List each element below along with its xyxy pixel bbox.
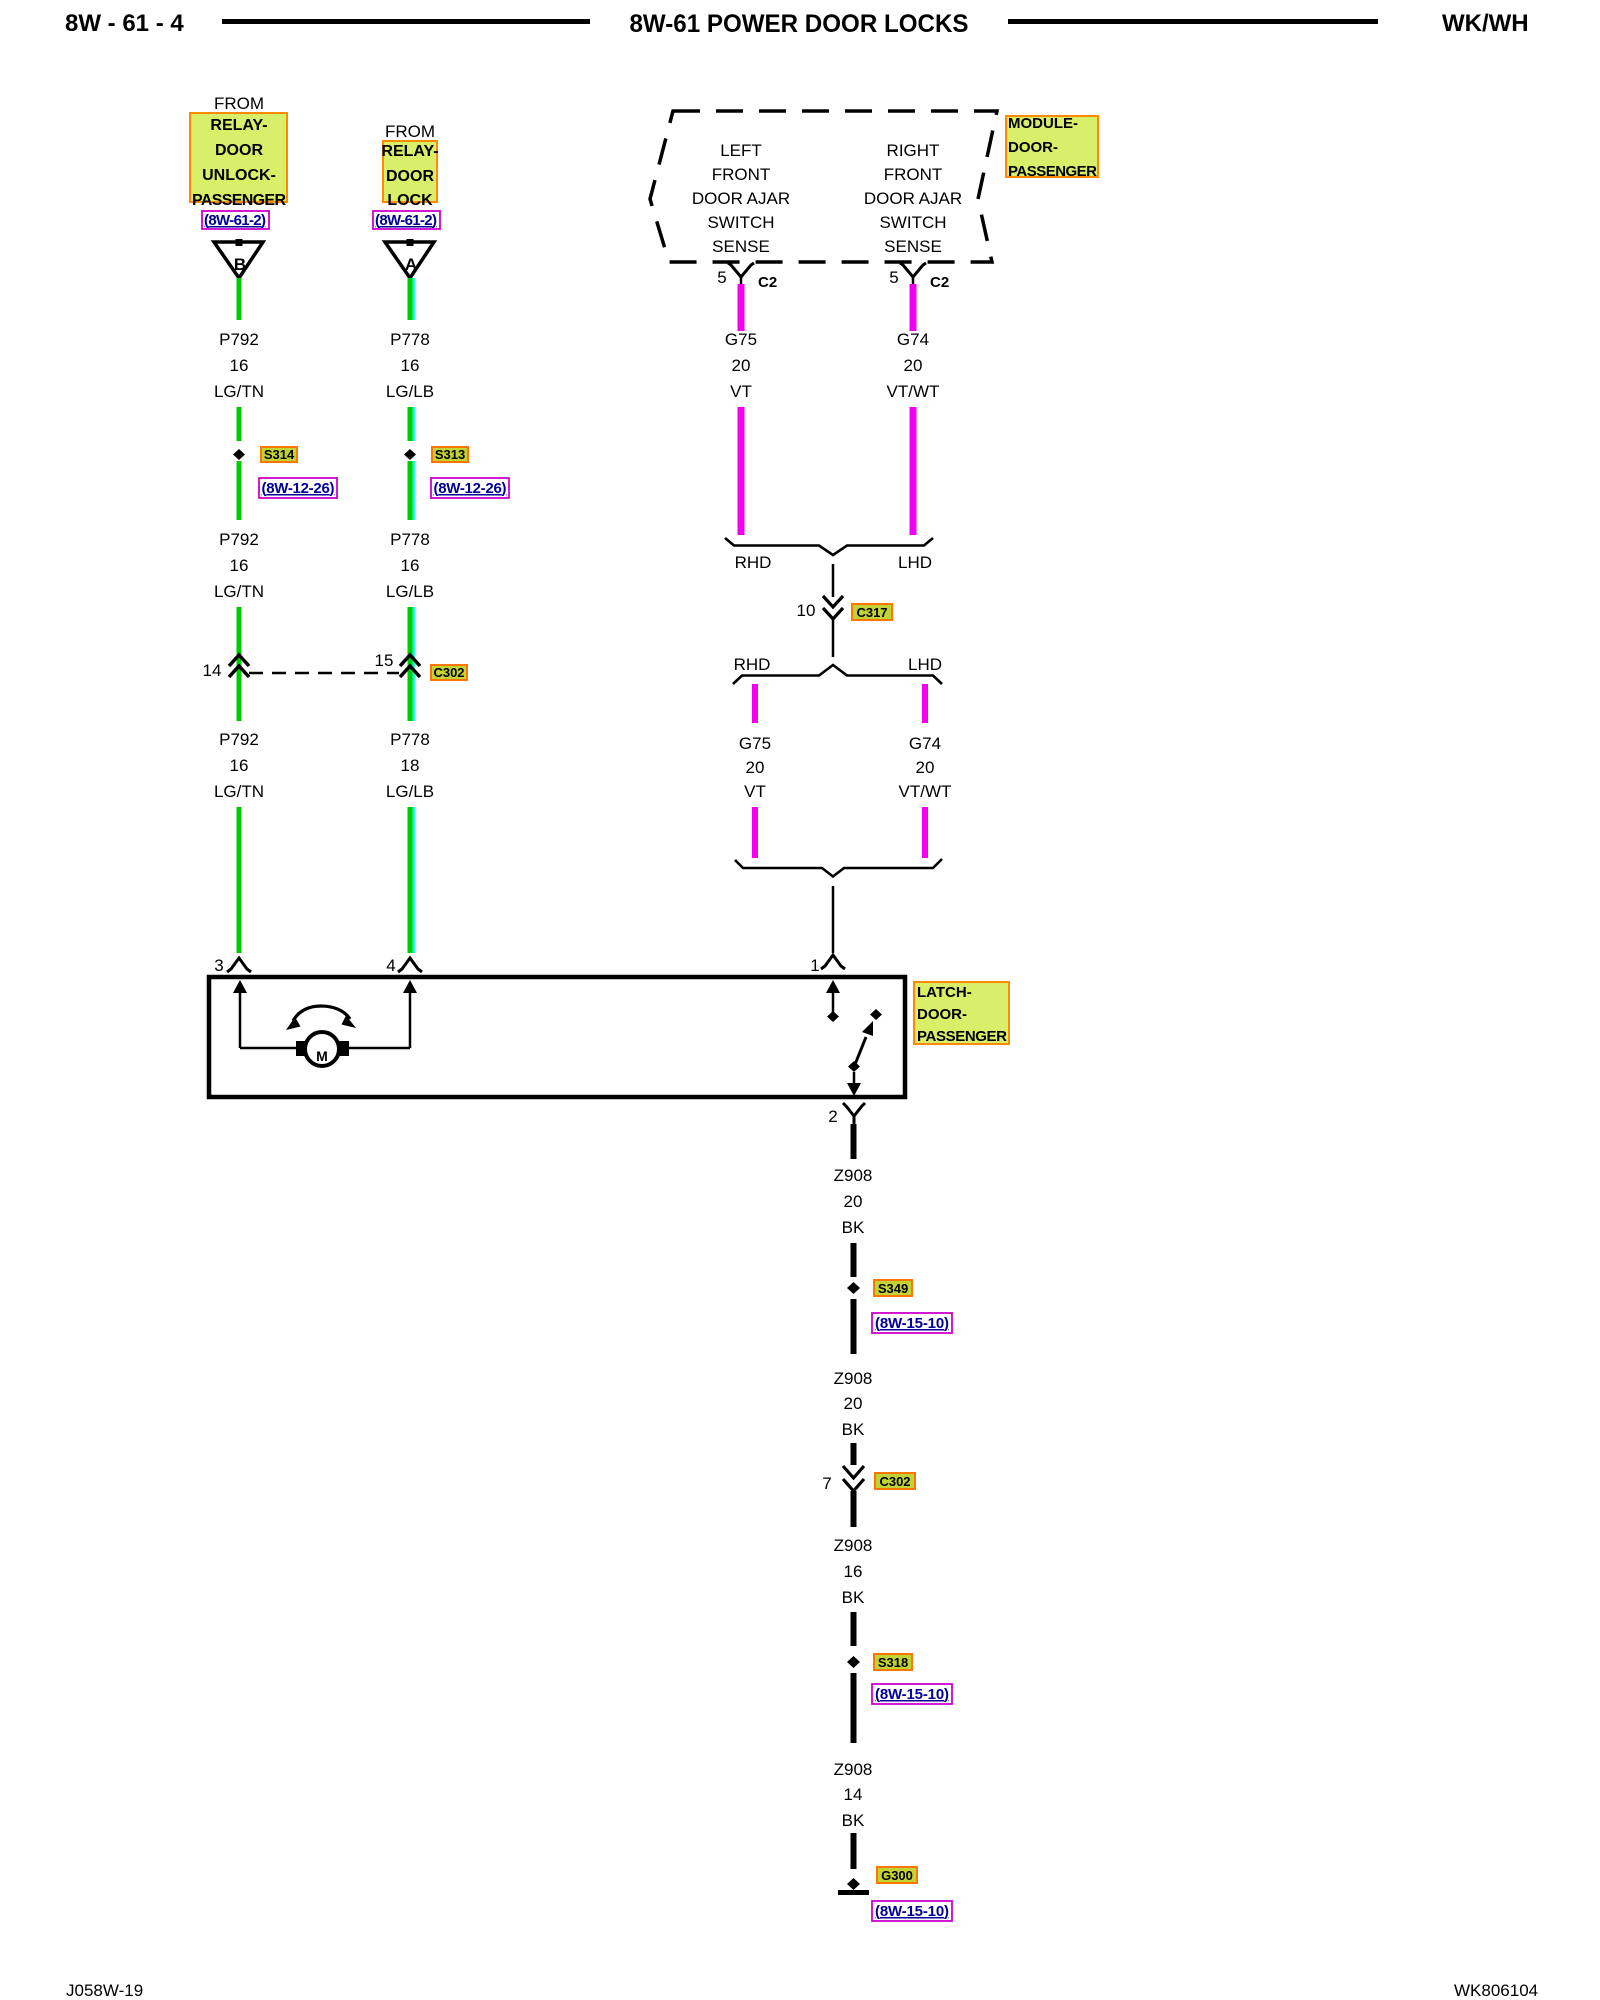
wire label G75 20 VT (upper) [725, 330, 757, 401]
svg-text:16: 16 [230, 356, 249, 375]
svg-text:DOOR: DOOR [386, 168, 434, 185]
svg-text:3: 3 [214, 956, 223, 975]
svg-text:15: 15 [375, 651, 394, 670]
svg-text:C2: C2 [758, 274, 777, 291]
svg-text:VT: VT [744, 782, 766, 801]
svg-text:SENSE: SENSE [712, 237, 770, 256]
brace upper (RHD/LHD merge) [725, 538, 933, 555]
svg-text:LHD: LHD [908, 655, 942, 674]
motor pin 4 arrow [403, 980, 417, 1048]
wire label Z908 14 BK [834, 1760, 873, 1830]
relay source box RELAY-DOOR LOCK [381, 141, 438, 209]
module label box MODULE-DOOR-PASSENGER [1006, 115, 1098, 180]
svg-text:(8W-15-10): (8W-15-10) [875, 1903, 949, 1920]
svg-text:LHD: LHD [898, 553, 932, 572]
off-page connector triangle A [385, 239, 434, 278]
wire Z908 black segment 5 [851, 1491, 857, 1527]
svg-text:10: 10 [797, 601, 816, 620]
svg-text:20: 20 [732, 356, 751, 375]
wire Z908 black segment 4 [851, 1443, 857, 1465]
svg-text:C302: C302 [433, 665, 464, 680]
svg-text:VT/WT: VT/WT [899, 782, 952, 801]
off-page connector triangle B [214, 239, 263, 278]
splice S314 diamond [233, 449, 245, 460]
wire P778 green segment 2 [408, 407, 413, 441]
svg-text:7: 7 [822, 1474, 831, 1493]
svg-text:(8W-15-10): (8W-15-10) [875, 1315, 949, 1332]
splice S318 label [874, 1654, 912, 1670]
svg-text:(8W-15-10): (8W-15-10) [875, 1686, 949, 1703]
svg-text:(8W-61-2): (8W-61-2) [375, 212, 437, 229]
switch common node diamond [827, 1011, 839, 1022]
switch blade with arrowhead [854, 1021, 873, 1067]
splice S313 diamond [404, 449, 416, 460]
header rule right [1008, 19, 1378, 24]
switch pin 1 arrow [826, 980, 840, 1016]
wire label Z908 20 BK (2) [834, 1369, 873, 1439]
wire P778 green segment 3 [408, 461, 413, 520]
svg-text:20: 20 [746, 758, 765, 777]
svg-text:20: 20 [844, 1394, 863, 1413]
svg-text:DOOR-: DOOR- [917, 1006, 967, 1023]
svg-text:LEFT: LEFT [720, 141, 762, 160]
svg-text:1: 1 [810, 956, 819, 975]
relay source box RELAY-DOOR UNLOCK-PASSENGER [190, 113, 287, 209]
svg-text:16: 16 [401, 556, 420, 575]
svg-text:(8W-12-26): (8W-12-26) [262, 480, 335, 497]
svg-text:PASSENGER: PASSENGER [192, 192, 286, 209]
wire P792 green segment 4 (through C302) [237, 607, 242, 721]
svg-text:RHD: RHD [734, 655, 771, 674]
module text RIGHT FRONT DOOR AJAR SWITCH SENSE [864, 141, 962, 256]
svg-text:14: 14 [844, 1785, 863, 1804]
svg-text:SWITCH: SWITCH [707, 213, 774, 232]
svg-text:LG/LB: LG/LB [386, 382, 434, 401]
svg-text:16: 16 [844, 1562, 863, 1581]
COLUMN 2 : FROM RELAY-DOOR LOCK [373, 122, 509, 975]
svg-text:DOOR: DOOR [215, 142, 263, 159]
wire P792 green segment 2 [237, 407, 242, 441]
COLUMN 1 : FROM RELAY-DOOR UNLOCK-PASSENGER [190, 94, 399, 975]
svg-text:4: 4 [386, 956, 395, 975]
wire G74 magenta segment 1 [910, 284, 917, 331]
svg-text:BK: BK [842, 1420, 865, 1439]
svg-text:S314: S314 [264, 447, 295, 462]
svg-text:MODULE-: MODULE- [1008, 115, 1078, 132]
wire P792 green segment 3 [237, 461, 242, 520]
svg-text:2: 2 [828, 1107, 837, 1126]
svg-text:C317: C317 [856, 605, 887, 620]
wire to C317 [832, 564, 835, 597]
svg-text:J058W-19: J058W-19 [66, 1981, 143, 2000]
svg-text:FROM: FROM [385, 122, 435, 141]
wire G75 magenta segment 2 [738, 407, 745, 535]
svg-text:S349: S349 [878, 1281, 908, 1296]
svg-text:20: 20 [844, 1192, 863, 1211]
wire label P792 16 LG/TN (upper) [214, 330, 264, 401]
svg-text:RHD: RHD [735, 553, 772, 572]
svg-text:Z908: Z908 [834, 1369, 873, 1388]
svg-text:VT: VT [730, 382, 752, 401]
svg-text:LG/TN: LG/TN [214, 782, 264, 801]
wire label G74 20 VT/WT (lower) [899, 734, 952, 801]
svg-text:G74: G74 [909, 734, 941, 753]
svg-text:P778: P778 [390, 730, 430, 749]
svg-text:8W-61 POWER DOOR LOCKS: 8W-61 POWER DOOR LOCKS [630, 10, 969, 38]
LATCH-DOOR-PASSENGER section [209, 955, 1009, 1126]
wire from C317 to split [832, 618, 835, 657]
svg-text:LOCK: LOCK [387, 192, 433, 209]
splice S349 diamond [847, 1282, 860, 1294]
wire label P792 16 LG/TN (lower) [214, 730, 264, 801]
svg-text:P778: P778 [390, 530, 430, 549]
wire label Z908 20 BK (1) [834, 1166, 873, 1237]
wire G74 magenta segment 2 [910, 407, 917, 535]
svg-text:P792: P792 [219, 530, 259, 549]
motor M circle [305, 1032, 339, 1066]
switch to pin 2 arrow [847, 1072, 861, 1096]
wire label Z908 16 BK [834, 1536, 873, 1607]
svg-text:BK: BK [842, 1811, 865, 1830]
svg-text:8W - 61 - 4: 8W - 61 - 4 [65, 10, 184, 37]
svg-text:VT/WT: VT/WT [887, 382, 940, 401]
svg-text:20: 20 [916, 758, 935, 777]
ground G300 symbol [838, 1878, 869, 1895]
svg-text:G74: G74 [897, 330, 929, 349]
reference link (8W-12-26) col2 [431, 478, 509, 498]
reference link (8W-12-26) col1 [259, 478, 337, 498]
wire label P778 16 LG/LB (upper) [386, 330, 434, 401]
svg-text:16: 16 [401, 356, 420, 375]
svg-text:C2: C2 [930, 274, 949, 291]
module text LEFT FRONT DOOR AJAR SWITCH SENSE [692, 141, 790, 256]
svg-text:PASSENGER: PASSENGER [917, 1028, 1007, 1045]
svg-text:WK/WH: WK/WH [1442, 10, 1529, 37]
wire label P778 16 LG/LB (middle) [386, 530, 434, 601]
motor left terminal [296, 1041, 306, 1056]
wire label G74 20 VT/WT (upper) [887, 330, 940, 401]
switch throw contact diamond [870, 1009, 882, 1020]
reference link (8W-61-2) col1 [202, 211, 269, 229]
latch pin 2 connector Y [843, 1103, 865, 1125]
svg-text:DOOR-: DOOR- [1008, 139, 1058, 156]
svg-text:LG/LB: LG/LB [386, 782, 434, 801]
module dashed outline [650, 111, 997, 262]
motor right terminal [339, 1041, 349, 1056]
switch lower node diamond [848, 1061, 860, 1072]
svg-text:P792: P792 [219, 730, 259, 749]
connector C302 pin 15 chevrons [400, 655, 420, 677]
motor wiring horizontal [240, 1047, 297, 1050]
reference link (8W-15-10) S318 [872, 1684, 952, 1704]
svg-text:G75: G75 [739, 734, 771, 753]
splice S313 label [432, 447, 468, 462]
svg-text:RIGHT: RIGHT [887, 141, 940, 160]
header rule left [222, 19, 590, 24]
Z908 ground path [822, 1124, 952, 1921]
reference link (8W-15-10) S349 [872, 1313, 952, 1333]
wire label P792 16 LG/TN (middle) [214, 530, 264, 601]
svg-text:PASSENGER: PASSENGER [1008, 163, 1097, 180]
wire G74 magenta stub lower [922, 807, 928, 858]
svg-text:5: 5 [889, 268, 898, 287]
svg-text:A: A [405, 255, 417, 274]
ground G300 label [877, 1867, 917, 1883]
brace split (inverted) [733, 665, 942, 684]
connector C2 pin 5 (right) [900, 263, 926, 285]
svg-text:5: 5 [717, 268, 726, 287]
svg-text:(8W-61-2): (8W-61-2) [204, 212, 266, 229]
wire Z908 black segment 6 [851, 1612, 857, 1646]
connector C317 chevrons [823, 596, 843, 619]
splice S318 diamond [847, 1656, 860, 1668]
connector C302 label (black wire) [875, 1473, 915, 1489]
svg-text:LATCH-: LATCH- [917, 984, 972, 1001]
wire P778 green segment 4 (through C302) [408, 607, 413, 721]
wire Z908 black segment 7 [851, 1673, 857, 1743]
svg-text:20: 20 [904, 356, 923, 375]
svg-text:16: 16 [230, 556, 249, 575]
wire G74 magenta stub upper [922, 684, 928, 723]
wire Z908 black segment 2 [851, 1243, 857, 1277]
svg-text:RELAY-: RELAY- [210, 117, 267, 134]
svg-text:P792: P792 [219, 330, 259, 349]
MODULE-DOOR-PASSENGER section [650, 111, 1098, 953]
latch pin 4 chevron [398, 958, 422, 972]
svg-text:18: 18 [401, 756, 420, 775]
svg-text:SWITCH: SWITCH [879, 213, 946, 232]
svg-text:DOOR AJAR: DOOR AJAR [692, 189, 790, 208]
svg-text:LG/LB: LG/LB [386, 582, 434, 601]
splice S349 label [874, 1280, 912, 1296]
motor rotation double arrow [286, 1006, 356, 1030]
svg-text:Z908: Z908 [834, 1166, 873, 1185]
svg-text:FRONT: FRONT [884, 165, 943, 184]
svg-text:16: 16 [230, 756, 249, 775]
connector C302 pin 14 chevrons [229, 655, 249, 677]
svg-text:14: 14 [203, 661, 222, 680]
svg-text:G300: G300 [881, 1868, 913, 1883]
svg-text:B: B [234, 255, 246, 274]
svg-text:WK806104: WK806104 [1454, 1981, 1538, 2000]
connector C317 label [852, 604, 892, 620]
reference link (8W-15-10) G300 [872, 1901, 952, 1921]
wire P778 green segment 1 [408, 278, 413, 320]
svg-text:S318: S318 [878, 1655, 908, 1670]
svg-text:G75: G75 [725, 330, 757, 349]
connector C302 dashed tie line [249, 672, 399, 675]
wire Z908 black segment 3 [851, 1299, 857, 1354]
svg-text:BK: BK [842, 1218, 865, 1237]
wire from merge to latch pin 1 [832, 886, 835, 953]
wire P778 green segment 5 [408, 807, 413, 953]
svg-text:DOOR AJAR: DOOR AJAR [864, 189, 962, 208]
wire label P778 18 LG/LB (lower) [386, 730, 434, 801]
svg-text:FROM: FROM [214, 94, 264, 113]
wire Z908 black segment 1 [851, 1124, 857, 1159]
svg-text:SENSE: SENSE [884, 237, 942, 256]
latch label box LATCH-DOOR-PASSENGER [914, 982, 1009, 1045]
svg-text:S313: S313 [435, 447, 465, 462]
svg-text:BK: BK [842, 1588, 865, 1607]
connector C302 pin 7 chevrons [843, 1466, 864, 1491]
wire P792 green segment 5 [237, 807, 242, 953]
svg-text:Z908: Z908 [834, 1760, 873, 1779]
svg-text:(8W-12-26): (8W-12-26) [434, 480, 507, 497]
svg-text:C302: C302 [879, 1474, 910, 1489]
splice S314 label [261, 447, 297, 462]
svg-text:RELAY-: RELAY- [381, 143, 438, 160]
wire Z908 black segment 8 [851, 1833, 857, 1869]
svg-text:P778: P778 [390, 330, 430, 349]
svg-text:LG/TN: LG/TN [214, 382, 264, 401]
svg-text:FRONT: FRONT [712, 165, 771, 184]
motor pin 3 arrow [233, 980, 247, 1048]
wire P792 green segment 1 [237, 278, 242, 320]
brace lower (merge to latch) [735, 859, 942, 877]
reference link (8W-61-2) col2 [373, 211, 440, 229]
connector C2 pin 5 (left) [728, 263, 754, 285]
svg-text:Z908: Z908 [834, 1536, 873, 1555]
latch pin 3 chevron [227, 958, 251, 972]
wire label G75 20 VT (lower) [739, 734, 771, 801]
wire G75 magenta segment 1 [738, 284, 745, 331]
wire G75 magenta stub upper [752, 684, 758, 723]
svg-text:M: M [316, 1048, 328, 1064]
svg-text:LG/TN: LG/TN [214, 582, 264, 601]
latch box outline [209, 977, 905, 1097]
svg-text:UNLOCK-: UNLOCK- [202, 167, 276, 184]
latch pin 1 chevron [821, 955, 845, 969]
wire G75 magenta stub lower [752, 807, 758, 858]
connector C302 label [431, 665, 467, 680]
